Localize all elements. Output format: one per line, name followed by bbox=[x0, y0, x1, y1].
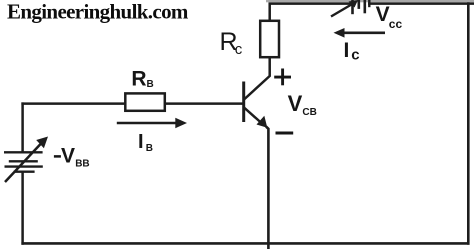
minus sign (emitter polarity) bbox=[276, 132, 294, 135]
battery VBB (adjustable source) bbox=[4, 137, 48, 183]
bottom wire bbox=[21, 242, 469, 245]
base wire: RB to base bbox=[165, 102, 244, 105]
left wire: base node down to VBB battery bbox=[21, 102, 24, 151]
label VCB bbox=[288, 91, 317, 118]
svg-text:B: B bbox=[147, 79, 154, 90]
transistor Q1 (NPN) bbox=[244, 82, 268, 128]
svg-text:c: c bbox=[235, 41, 243, 58]
svg-text:CB: CB bbox=[302, 107, 316, 118]
current arrow IC (points left) bbox=[334, 28, 386, 38]
top wire: VCC battery to top-right corner bbox=[368, 2, 474, 5]
top crop band (gray strip above top wire) bbox=[266, 0, 474, 2]
right wire bbox=[467, 2, 470, 244]
wire: RC bottom to collector bbox=[244, 57, 270, 100]
label VCC bbox=[376, 3, 403, 31]
emitter wire down through bottom rail bbox=[266, 127, 268, 249]
resistor RB bbox=[125, 93, 165, 110]
svg-text:c: c bbox=[351, 47, 359, 64]
left wire: VBB battery down to bottom rail bbox=[21, 173, 24, 245]
label RB bbox=[131, 67, 153, 90]
svg-text:V: V bbox=[376, 3, 390, 26]
current arrow IB (points right) bbox=[117, 118, 187, 128]
svg-text:BB: BB bbox=[75, 158, 89, 169]
resistor RC bbox=[260, 21, 279, 57]
top wire: Rc top corner to VCC battery bbox=[270, 4, 352, 21]
svg-text:I: I bbox=[344, 39, 350, 62]
svg-text:I: I bbox=[138, 131, 144, 153]
site title text bbox=[7, 0, 189, 24]
svg-text:Engineeringhulk.com: Engineeringhulk.com bbox=[7, 0, 189, 24]
label RC bbox=[220, 28, 243, 58]
battery VCC (adjustable source, cut off at top edge) bbox=[331, 0, 369, 17]
svg-text:V: V bbox=[61, 144, 75, 167]
svg-text:R: R bbox=[131, 67, 146, 90]
svg-text:B: B bbox=[146, 143, 153, 154]
plus sign (collector-base polarity) bbox=[274, 69, 291, 86]
svg-text:cc: cc bbox=[389, 17, 403, 31]
label IB bbox=[138, 131, 153, 154]
label -VBB bbox=[54, 144, 90, 169]
svg-text:V: V bbox=[288, 91, 303, 116]
label IC bbox=[344, 39, 360, 64]
base wire: left rail to RB bbox=[21, 102, 125, 105]
